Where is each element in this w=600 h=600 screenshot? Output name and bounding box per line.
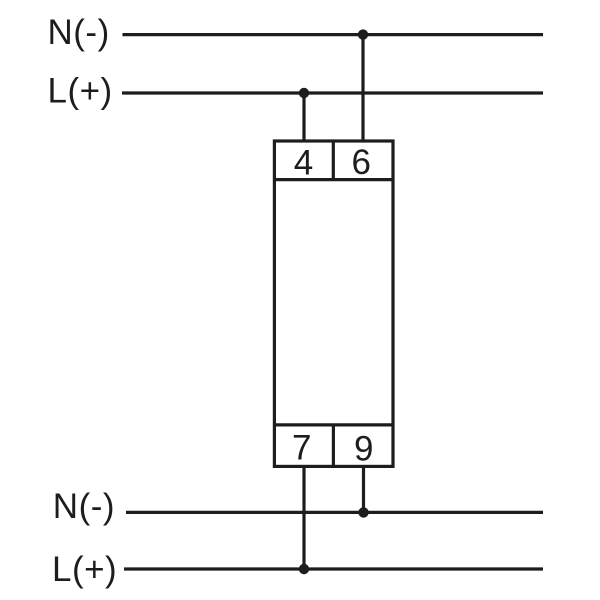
wire terminal 9 to N bottom [362,466,365,512]
wire L bottom [124,567,543,570]
top terminal divider [332,141,335,180]
svg-text:4: 4 [294,144,313,183]
wire N bottom [126,511,543,514]
device body outline [274,141,393,466]
junction dot on N bottom [358,507,368,517]
svg-text:L(+): L(+) [48,71,113,110]
junction dot on L top [299,88,309,98]
top terminal row separator [274,178,393,181]
svg-text:6: 6 [351,143,370,182]
bottom terminal divider [332,425,335,467]
junction dot on N top [358,29,368,39]
svg-text:9: 9 [354,429,373,468]
svg-text:N(-): N(-) [53,487,115,526]
svg-text:7: 7 [292,429,311,468]
junction dot on L bottom [299,564,309,574]
wire L top to terminal 4 [302,93,305,141]
wire terminal 7 to L bottom [302,466,305,569]
bottom terminal row separator [274,423,393,426]
svg-text:L(+): L(+) [52,550,117,589]
wire N top to terminal 6 [361,35,364,141]
svg-text:N(-): N(-) [48,13,110,52]
wire N top [123,33,544,36]
wire L top [122,91,543,94]
